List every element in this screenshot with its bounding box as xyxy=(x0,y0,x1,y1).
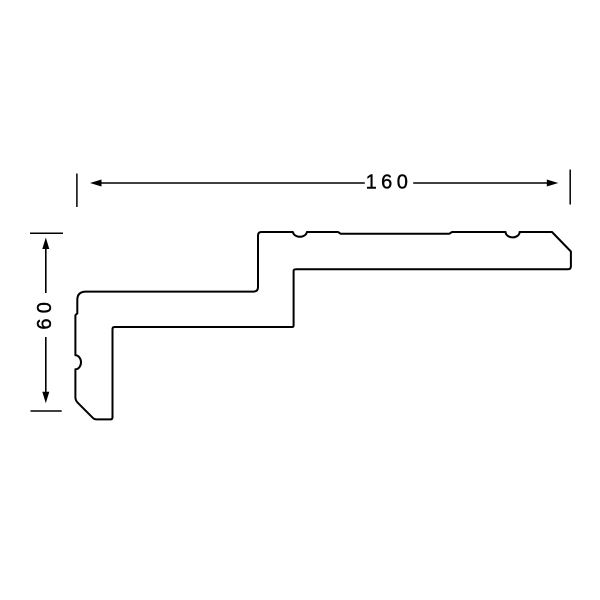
dimension extension tick bottom (60) xyxy=(31,410,62,412)
dimension extension tick left (160) xyxy=(76,174,78,208)
arrowhead up (60) xyxy=(42,238,49,250)
arrowhead down (60) xyxy=(42,392,49,404)
dimension line 160 right segment xyxy=(413,182,551,184)
svg-text:60: 60 xyxy=(34,297,56,330)
dimension line 160 left segment xyxy=(97,182,365,184)
svg-text:160: 160 xyxy=(366,172,413,194)
profile outline (window sill step profile) xyxy=(75,232,571,419)
arrowhead left (160) xyxy=(90,180,102,187)
dimension extension tick top (60) xyxy=(30,232,63,234)
dimension extension tick right (160) xyxy=(569,170,571,205)
dimension line 60 lower segment xyxy=(45,337,47,397)
dimension line 60 upper segment xyxy=(45,244,47,293)
arrowhead right (160) xyxy=(547,180,559,187)
